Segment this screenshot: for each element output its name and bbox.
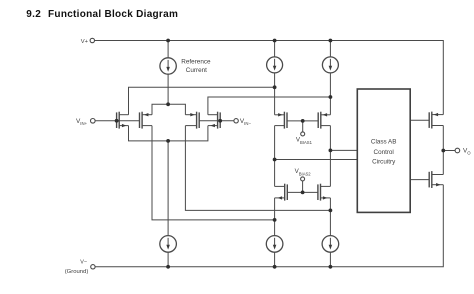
- svg-text:Reference: Reference: [181, 58, 211, 65]
- terminal VBIAS2: [301, 177, 305, 181]
- terminal VO: [455, 148, 460, 153]
- junction dot bottom rail 3: [329, 265, 333, 269]
- wire lower-left cascode source down: [274, 198, 276, 236]
- svg-text:Current: Current: [186, 67, 207, 74]
- wire V+ top rail: [95, 41, 444, 115]
- svg-text:VBIAS2: VBIAS2: [295, 168, 312, 177]
- transistor upper cascode left: [275, 112, 287, 129]
- junction dot Q4 drain cascode: [329, 95, 333, 99]
- junction dot Q1 drain cascode: [273, 85, 277, 89]
- wire lower cascode gate bus: [287, 191, 318, 193]
- junction dot top rail 2: [273, 39, 277, 43]
- terminal V+: [90, 38, 94, 42]
- wire right cascode spine: [329, 126, 331, 187]
- wire VIN+ to gates: [95, 120, 139, 122]
- svg-text:VO: VO: [463, 148, 471, 156]
- transistor Q2 input inner-left: [140, 112, 153, 129]
- svg-text:VIN+: VIN+: [76, 118, 88, 126]
- junction dot bottom rail 1: [166, 265, 170, 269]
- junction dot Q2 drain join: [273, 218, 277, 222]
- wire left cascode spine: [274, 126, 276, 187]
- junction dot tail node: [166, 139, 170, 143]
- transistor Q1 input outer-left: [117, 112, 129, 129]
- junction dot right cascode mid: [329, 149, 333, 153]
- transistor lower cascode right: [318, 184, 331, 201]
- terminal VBIAS1: [301, 132, 305, 136]
- junction dot bottom rail 2: [273, 265, 277, 269]
- junction dot top rail 3: [329, 39, 333, 43]
- wire output node to VO terminal: [443, 150, 455, 152]
- current source top 2: [267, 57, 283, 73]
- wire V- bottom rail: [95, 185, 443, 267]
- current source bottom 1: [160, 236, 177, 253]
- wire Q1 drain to left cascode node: [129, 87, 275, 114]
- terminal VIN+: [91, 119, 96, 124]
- svg-text:Circuitry: Circuitry: [372, 159, 396, 166]
- junction dot output node: [441, 149, 445, 153]
- wire top current source 3 to cascode: [329, 73, 331, 115]
- junction dot VIN- gate: [218, 119, 222, 123]
- svg-text:V+: V+: [81, 39, 89, 45]
- wire left cascode node to Class AB box: [275, 159, 358, 161]
- current source bottom 3: [322, 236, 339, 253]
- wire top current source 2 to cascode: [274, 73, 276, 115]
- wire Class AB to PMOS output gate: [410, 119, 429, 121]
- wire output node vertical: [442, 126, 444, 175]
- wire VBIAS2 stem: [302, 181, 304, 193]
- wire bottom current source 2 stub: [274, 252, 276, 267]
- transistor Q4 input outer-right: [208, 112, 220, 129]
- wire upper cascode gate bus: [287, 120, 318, 122]
- junction dot top rail 1: [166, 39, 170, 43]
- wire inner pair drain node: [152, 104, 185, 114]
- wire Q4 drain to right cascode node: [208, 97, 331, 115]
- wire ref current to inner pair node: [167, 74, 169, 104]
- wire bottom current source 1 stub: [167, 252, 169, 267]
- wire top current source 2 stub: [274, 41, 276, 57]
- current source I_REF: [160, 58, 176, 74]
- current source bottom 2: [266, 236, 283, 253]
- svg-text:VIN−: VIN−: [240, 118, 252, 126]
- svg-text:Control: Control: [374, 149, 394, 156]
- wire bottom current source 3 stub: [329, 252, 331, 267]
- junction dot VBIAS2 gate bus: [301, 191, 305, 195]
- wire Class AB to NMOS output gate: [410, 179, 429, 181]
- wire VBIAS1 stem: [302, 121, 304, 132]
- Class AB Control Circuitry box U1: [357, 89, 410, 212]
- transistor output PMOS: [429, 112, 443, 129]
- junction dot Q3 drain join: [329, 209, 333, 213]
- wire ref current top stub: [167, 41, 169, 58]
- svg-text:V−: V−: [80, 259, 87, 265]
- wire right cascode node to Class AB box: [330, 149, 357, 151]
- section title: [26, 9, 178, 20]
- wire tail bus Q1-Q4 sources: [129, 126, 208, 141]
- transistor upper cascode right: [318, 112, 330, 129]
- wire Q2 drain down-across: [152, 126, 275, 220]
- svg-text:Class AB: Class AB: [371, 139, 397, 146]
- transistor lower cascode left: [275, 184, 288, 201]
- svg-text:VBIAS1: VBIAS1: [296, 137, 313, 146]
- wire Q3 drain down-across: [185, 126, 330, 211]
- wire VIN- to gates: [199, 120, 234, 122]
- terminal VIN-: [234, 119, 238, 123]
- wire tail to bottom current source: [167, 141, 169, 236]
- junction dot VIN+ gate: [115, 119, 119, 123]
- junction dot inner pair drain node: [166, 102, 170, 106]
- transistor output NMOS: [429, 171, 443, 188]
- current source top 3: [322, 57, 338, 73]
- wire lower-right cascode source down: [329, 198, 331, 236]
- svg-text:(Ground): (Ground): [65, 269, 89, 275]
- terminal V-: [91, 265, 95, 269]
- junction dot VBIAS1 gate bus: [301, 119, 305, 123]
- wire top current source 3 stub: [329, 41, 331, 57]
- junction dot left cascode mid: [273, 158, 277, 162]
- transistor Q3 input inner-right: [185, 112, 199, 129]
